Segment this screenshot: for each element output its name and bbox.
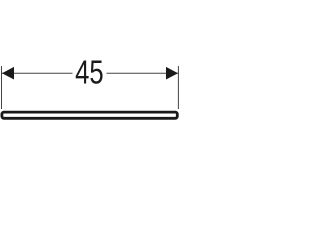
arrowhead right [166,67,178,80]
extension line right [177,66,179,109]
slab (countertop profile) [2,112,177,118]
arrowhead left [2,67,14,80]
dimension line left segment [2,72,73,74]
extension line left [1,66,3,109]
dimension line right segment [107,72,179,74]
svg-text:45: 45 [75,54,104,91]
